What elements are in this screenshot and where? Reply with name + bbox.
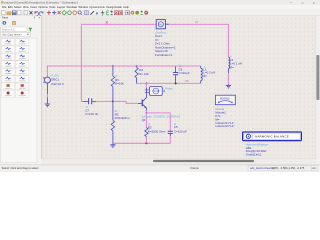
wire R3 bottom to ground rail	[145, 137, 147, 143]
wire top rail left segment (feedback corner to OscPort pin 1)	[81, 23, 156, 25]
wire collector rail (R4 bottom to L1 bottom)	[137, 82, 201, 84]
svg-text:0 items: 0 items	[190, 166, 199, 170]
svg-text:□: □	[302, 1, 304, 5]
wire VCC rail	[47, 65, 200, 67]
title bar	[0, 0, 320, 5]
svg-text:I1: I1	[163, 89, 166, 93]
transistor Q1 model labels	[142, 115, 181, 122]
inductor L1 value labels	[203, 64, 215, 78]
svg-text:R=51kOhm: R=51kOhm	[115, 116, 130, 120]
menu bar	[0, 5, 320, 9]
capacitor C7 value labels	[85, 105, 98, 116]
svg-text:Search A-Z...: Search A-Z...	[2, 27, 17, 31]
current probe I_Probe I1 (symbol)	[145, 87, 162, 96]
svg-text:-1.250, -2.375: -1.250, -2.375	[288, 166, 305, 170]
node Vc x-marker on top rail	[106, 21, 108, 23]
svg-text:Order[1]=11: Order[1]=11	[246, 153, 262, 157]
svg-text:Parts: Parts	[2, 15, 9, 19]
inductor L2 value labels	[230, 54, 242, 69]
svg-text:HARMONIC BALANCE: HARMONIC BALANCE	[255, 135, 289, 139]
inductor L1 (symbol)	[201, 66, 203, 83]
wire top rail right segment (OscPort pin 2 to L2 corner)	[169, 23, 228, 25]
vertical scrollbar	[316, 16, 320, 159]
capacitor C5 (symbol)	[168, 131, 173, 136]
capacitor C8 value labels	[179, 64, 191, 75]
toolbar	[0, 9, 320, 16]
svg-text:practice10 [work08] (Keysight:: practice10 [work08] (Keysight:Kos:Schema…	[4, 1, 78, 5]
resistor R3 value labels	[148, 123, 166, 134]
I_Probe I1 labels	[162, 87, 173, 94]
op-amp-style oscillator port OscPort Osc1 (symbol)	[156, 20, 169, 29]
HB1 value labels	[246, 142, 269, 156]
wire ground rail bottom	[113, 142, 170, 144]
V_DC SRC1 value labels	[51, 74, 64, 86]
wire R3 column down	[145, 113, 147, 127]
junction collector rail / C8 bottom	[175, 82, 177, 84]
wire C7 left stub	[81, 100, 82, 102]
ground (bottom rail)	[110, 143, 115, 147]
junction VCC rail / R6 top	[112, 65, 114, 67]
svg-text:R=: R=	[203, 74, 207, 78]
junction VCC rail / R4 top	[136, 65, 138, 67]
svg-text:FundIndex=1: FundIndex=1	[155, 53, 173, 57]
svg-text:Vb: Vb	[185, 79, 189, 83]
ground (below L2)	[226, 84, 231, 88]
svg-text:R=: R=	[230, 65, 234, 69]
resistor R5 (symbol)	[111, 101, 114, 143]
resistor R6 (symbol)	[111, 66, 114, 101]
wire feedback vertical (top rail down to C7)	[80, 24, 82, 102]
svg-text:C5: C5	[174, 125, 178, 129]
search box	[1, 27, 27, 31]
wire L2 bottom to ground	[227, 73, 229, 84]
horizontal scrollbar	[42, 159, 316, 165]
svg-text:File Edit Select View Inse: File Edit Select View Insert Options Too…	[2, 5, 129, 9]
dc source V_DC SRC1 (symbol)	[43, 66, 50, 104]
ground (below V_DC)	[45, 104, 50, 107]
svg-text:R=2000 Ohm: R=2000 Ohm	[148, 129, 166, 133]
capacitor C5 value labels	[174, 122, 187, 134]
wire L2 top (corner from top rail)	[227, 24, 229, 57]
junction collector rail / probe drop	[145, 82, 147, 84]
resistor R6 value labels	[115, 75, 124, 86]
svg-text:C=100 nF: C=100 nF	[174, 129, 187, 133]
junction emitter node	[146, 112, 148, 114]
palette dropdown	[1, 33, 31, 37]
Mutual1 value labels	[215, 107, 234, 128]
wire emitter (Q1 emitter down to emitter node)	[145, 111, 147, 113]
resistor R3 (symbol)	[145, 127, 148, 137]
resistor R5 value labels	[115, 109, 130, 120]
svg-text:C=60 pF: C=60 pF	[179, 71, 191, 75]
svg-text:⊼: ⊼	[34, 15, 36, 19]
wire emitter node across to C5 column	[146, 112, 170, 114]
wire C5 column down	[169, 113, 171, 131]
capacitor C7 (series, symbol)	[83, 98, 97, 104]
svg-text:A: A	[96, 12, 99, 16]
svg-text:Q1: Q1	[142, 118, 146, 122]
svg-text:R= 10k: R= 10k	[139, 72, 149, 76]
status bar	[0, 165, 320, 172]
svg-text:Vdc=12 V: Vdc=12 V	[51, 82, 64, 86]
svg-text:MUTIND: MUTIND	[220, 97, 230, 100]
inductor L2 (symbol)	[228, 57, 229, 73]
svg-text:aa_apn_2N3904_19930601: aa_apn_2N3904_19930601	[142, 115, 181, 119]
wire base jog (divider node to Q1 base)	[113, 101, 138, 103]
svg-text:C=100 nF: C=100 nF	[85, 112, 98, 116]
resistor R4 value labels	[139, 64, 149, 76]
wire base segment (C7 to divider node)	[96, 100, 113, 102]
wire collector drop (rail to Q1 collector)	[145, 83, 147, 93]
transistor Q1 (BJT npn symbol)	[138, 94, 147, 111]
OscPort Osc1 value labels	[155, 30, 176, 56]
node Vb label	[185, 79, 189, 83]
wire C5 bottom to ground rail	[169, 136, 171, 143]
junction base/divider node	[112, 100, 114, 102]
simulation controller HARMONIC BALANCE HB1 (block)	[243, 132, 302, 141]
svg-text:Select: Click and drag to sele: Select: Click and drag to select.	[2, 166, 40, 170]
svg-text:<No Copy items>: <No Copy items>	[2, 33, 23, 37]
mutual inductance Mutual1 (symbol box)	[215, 95, 235, 105]
junction bottom rail / R3	[145, 142, 147, 144]
svg-text:Vf: Vf	[195, 20, 198, 24]
node Vf label	[195, 20, 198, 24]
resistor R4 (symbol)	[135, 66, 138, 83]
svg-text:100%, -0.500: 100%, -0.500	[272, 166, 288, 170]
capacitor C8 (symbol)	[173, 66, 178, 83]
svg-text:Inductor2="L2": Inductor2="L2"	[215, 124, 234, 128]
svg-text:R=10k: R=10k	[115, 81, 124, 85]
svg-text:–: –	[290, 1, 292, 5]
